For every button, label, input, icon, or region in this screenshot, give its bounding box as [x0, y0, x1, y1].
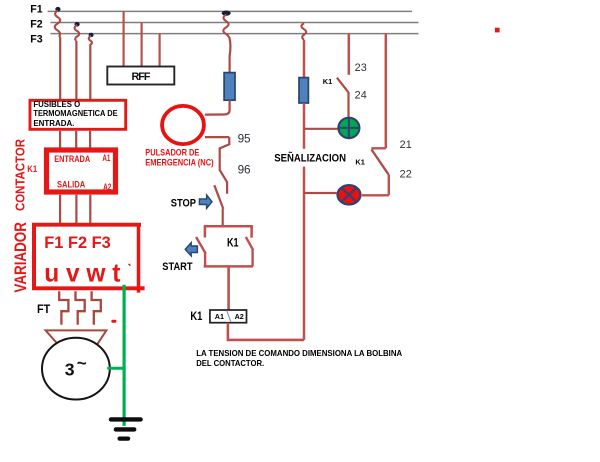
svg-text:STOP: STOP: [171, 197, 197, 209]
svg-text:RFF: RFF: [132, 71, 151, 83]
svg-text:K1: K1: [323, 77, 332, 86]
svg-text:21: 21: [400, 139, 412, 151]
svg-text:K1: K1: [27, 163, 37, 174]
svg-text:F1 F2 F3: F1 F2 F3: [44, 233, 111, 252]
svg-text:A1: A1: [215, 314, 224, 321]
svg-text:~: ~: [77, 354, 87, 373]
svg-text:SALIDA: SALIDA: [57, 178, 85, 189]
svg-text:FT: FT: [37, 302, 51, 316]
svg-text:22: 22: [400, 169, 412, 181]
svg-text:ENTRADA: ENTRADA: [54, 153, 90, 164]
svg-text:A2: A2: [103, 181, 111, 192]
svg-text:3: 3: [65, 360, 75, 380]
svg-text:K1: K1: [190, 310, 202, 323]
svg-text:A1: A1: [102, 152, 110, 163]
svg-text:LA TENSION DE COMANDO DIMENSIO: LA TENSION DE COMANDO DIMENSIONA LA BOLB…: [196, 349, 402, 358]
svg-text:95: 95: [238, 132, 251, 146]
svg-text:PULSADOR DE: PULSADOR DE: [145, 148, 199, 158]
svg-text:ENTRADA.: ENTRADA.: [33, 119, 74, 128]
svg-text:FUSIBLES O: FUSIBLES O: [33, 100, 80, 109]
svg-text:DEL CONTACTOR.: DEL CONTACTOR.: [196, 359, 264, 368]
svg-text:F2: F2: [30, 19, 42, 31]
svg-text:u v w t: u v w t: [44, 258, 121, 288]
svg-text:F1: F1: [30, 4, 42, 16]
svg-text:K1: K1: [227, 236, 239, 249]
svg-text:SEÑALIZACION: SEÑALIZACION: [274, 151, 346, 164]
svg-text:F3: F3: [30, 33, 42, 45]
svg-text:K1: K1: [355, 158, 364, 167]
svg-text:96: 96: [238, 163, 251, 177]
svg-text:VARIADOR: VARIADOR: [12, 222, 30, 293]
svg-text:24: 24: [355, 90, 367, 102]
svg-text:CONTACTOR: CONTACTOR: [13, 138, 28, 211]
svg-text:23: 23: [355, 62, 367, 74]
svg-text:EMERGENCIA (NC): EMERGENCIA (NC): [145, 158, 213, 168]
svg-text:TERMOMAGNETICA DE: TERMOMAGNETICA DE: [33, 109, 118, 118]
svg-text:START: START: [162, 261, 192, 273]
svg-text:A2: A2: [235, 314, 244, 321]
